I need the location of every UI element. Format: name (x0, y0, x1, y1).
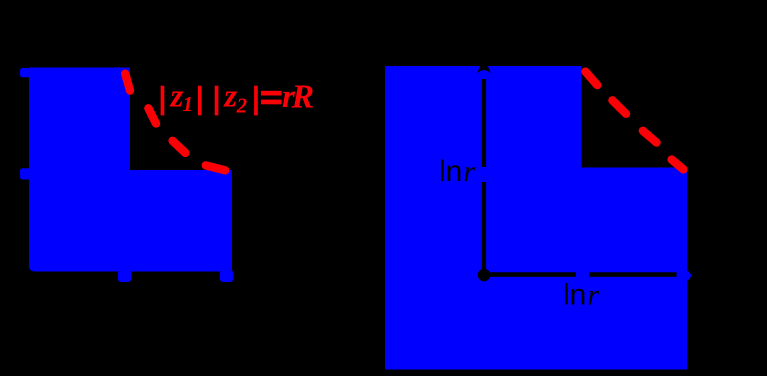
black horizontal axis right segment (589, 272, 677, 277)
red dashed hyperbola |z1||z2|=rR : dash 1 (125, 74, 130, 91)
bar 3 (215, 86, 219, 116)
svg-text:R: R (291, 79, 315, 116)
red dashed line ln|z1|+ln|z2|=ln(rR) : dash 1 (586, 72, 598, 86)
svg-text:z: z (223, 79, 237, 115)
dash 3 (643, 131, 657, 143)
tick nub R on y-axis (top-left) (20, 68, 31, 77)
tick nub r on x-axis (118, 270, 131, 282)
blue L-shaped Reinhardt domain (29, 68, 232, 272)
dash 2 (148, 108, 156, 123)
svg-text:2: 2 (236, 94, 248, 118)
black vertical axis upper segment with arrowhead (477, 56, 491, 74)
red formula |z1| |z2| = rR (161, 79, 315, 118)
svg-text:1: 1 (183, 92, 194, 116)
svg-text:lnr: lnr (439, 155, 475, 188)
tick nub R on x-axis (220, 270, 233, 282)
origin dot (478, 269, 491, 282)
blue arrowhead of horizontal axis poking out right edge (679, 268, 692, 284)
bar 4 (254, 86, 258, 116)
dash 4 (672, 160, 684, 170)
svg-text:lnr: lnr (563, 279, 599, 312)
blue notched square (log image of domain) (385, 66, 687, 370)
dash 4 (206, 165, 225, 170)
svg-text:z: z (170, 79, 184, 115)
dash 3 (173, 141, 186, 153)
bar 1 (161, 86, 165, 116)
black vertical axis lower segment (482, 182, 486, 270)
black horizontal axis left segment (488, 272, 576, 277)
dash 2 (612, 100, 626, 114)
equals sign (261, 91, 282, 96)
bar 2 (198, 86, 202, 116)
tick nub r on y-axis (20, 168, 31, 179)
